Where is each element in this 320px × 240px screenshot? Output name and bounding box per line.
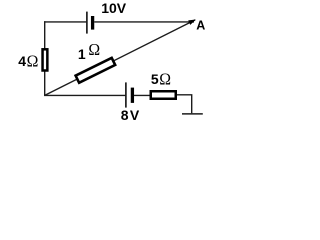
battery V1 10V thin plate (positive) bbox=[86, 12, 88, 34]
label 5 bbox=[151, 71, 159, 87]
battery V1 10V thick plate (negative) bbox=[91, 16, 94, 30]
svg-text:1: 1 bbox=[78, 46, 86, 62]
svg-text:Ω: Ω bbox=[159, 69, 171, 89]
battery V2 8V thick plate (negative) bbox=[131, 88, 134, 103]
label ohm (5) bbox=[159, 69, 171, 89]
label node A bbox=[196, 19, 205, 33]
label 4 bbox=[18, 53, 26, 69]
wire 8V battery to 5-ohm resistor bbox=[134, 94, 151, 96]
label 10V bbox=[101, 0, 127, 16]
battery V2 8V thin plate (positive) bbox=[125, 82, 127, 107]
arrowhead at node A bbox=[188, 20, 196, 25]
ground bar bbox=[182, 113, 203, 115]
svg-text:10V: 10V bbox=[101, 0, 127, 16]
svg-text:A: A bbox=[196, 19, 205, 33]
wire top-right horizontal (10V battery to node A) bbox=[94, 21, 194, 23]
wire 5-ohm resistor to ground drop bbox=[177, 95, 192, 114]
svg-text:8V: 8V bbox=[121, 107, 141, 123]
label ohm (4) bbox=[27, 51, 39, 71]
label 1 bbox=[78, 46, 86, 62]
svg-text:Ω: Ω bbox=[27, 51, 39, 71]
svg-text:4: 4 bbox=[18, 53, 26, 69]
svg-text:Ω: Ω bbox=[88, 39, 100, 59]
label 8V bbox=[121, 107, 141, 123]
wire bottom horizontal (corner to 8V battery) bbox=[44, 94, 125, 96]
resistor R2 1 ohm body (rotated) bbox=[76, 58, 116, 83]
resistor R3 5 ohm body bbox=[151, 91, 176, 99]
wire left vertical (through 4-ohm resistor) bbox=[44, 21, 46, 95]
wire top-left horizontal (corner to 10V battery) bbox=[44, 21, 86, 23]
wire diagonal (bottom-left corner to node A) bbox=[45, 20, 196, 96]
svg-text:5: 5 bbox=[151, 71, 159, 87]
label ohm (1) bbox=[88, 39, 100, 59]
resistor R1 4 ohm body bbox=[43, 49, 48, 70]
